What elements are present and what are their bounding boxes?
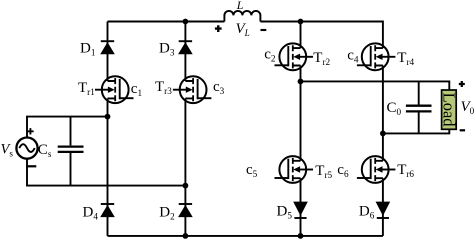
load [439, 90, 458, 129]
node dot branch C mid [298, 79, 304, 85]
wire branch C lower [300, 178, 302, 236]
transistor Tr4 [347, 43, 414, 70]
wire branch D middle [382, 66, 384, 161]
node dot branch B top [183, 19, 189, 25]
transistor Tr2 [264, 43, 330, 70]
wire branch A upper [107, 22, 109, 82]
wire branch D lower [382, 178, 384, 236]
capacitor Cs [38, 117, 84, 186]
transistor Tr5 [246, 156, 333, 183]
diode D1 [80, 40, 115, 57]
node dot source bottom on branch B [183, 183, 189, 189]
label minus VL [261, 29, 267, 31]
capacitor C0 [387, 81, 432, 133]
diode D2 [159, 204, 192, 222]
node dot branch C bottom [298, 233, 304, 239]
wire branch C middle [300, 66, 302, 161]
svg-text:Load: Load [439, 93, 458, 128]
wire source bottom [27, 159, 185, 186]
ac source Vs [1, 128, 38, 166]
wire node P to load top [301, 81, 450, 90]
transistor Tr1 [78, 76, 142, 103]
node dot branch D mid [380, 131, 386, 137]
wire branch B lower [184, 98, 186, 236]
wire bottom bus [108, 235, 383, 237]
wire branch A lower [107, 98, 109, 236]
label plus VL [215, 25, 222, 32]
diode D4 [83, 204, 115, 222]
diode D6 [359, 202, 390, 221]
node dot branch C top [298, 19, 304, 25]
diode D5 [277, 202, 308, 221]
wire top rail right [260, 22, 383, 49]
wire branch B upper [184, 22, 186, 82]
label plus V0 [459, 81, 465, 87]
diode D3 [159, 40, 193, 57]
wire node Q to load bottom [383, 129, 449, 133]
transistor Tr3 [155, 76, 225, 103]
node dot branch B bottom [183, 233, 189, 239]
label minus V0 [460, 129, 465, 131]
node dot source top on branch A [105, 114, 111, 120]
transistor Tr6 [337, 156, 414, 183]
wire branch C upper [300, 22, 302, 49]
wire top rail left [108, 21, 225, 23]
wire source top [27, 117, 108, 138]
inductor L [224, 0, 260, 21]
svg-text:L: L [236, 0, 244, 12]
